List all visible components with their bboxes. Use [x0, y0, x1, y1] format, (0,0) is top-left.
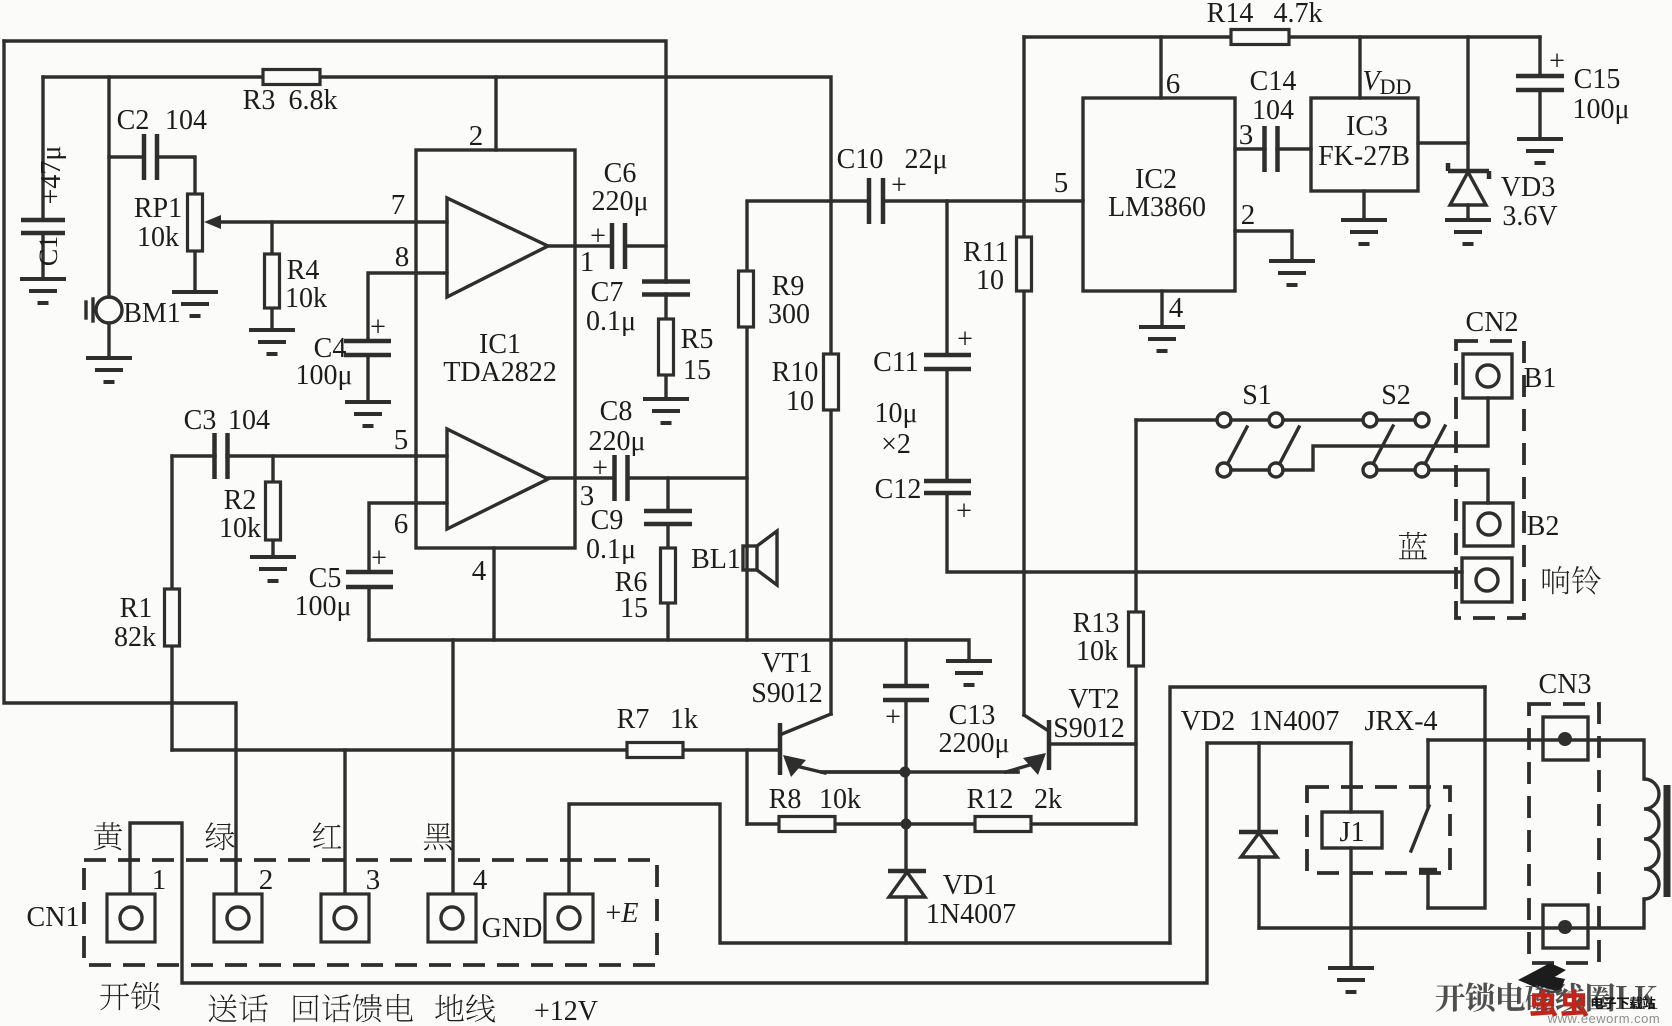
wire R13 to VT2 base node — [1134, 666, 1137, 824]
label R12 value 2k — [1034, 784, 1062, 815]
svg-text:300: 300 — [768, 299, 810, 330]
label BM1 — [123, 298, 181, 329]
wire IC1 pin 4 down to ground rail — [492, 548, 495, 640]
wire S2 lower to B2 — [1429, 470, 1488, 503]
ground under C15 — [1517, 139, 1563, 163]
svg-text:VT2: VT2 — [1068, 684, 1119, 715]
pin 4 label IC2 — [1169, 292, 1184, 324]
capacitor C15 100u electrolytic — [1516, 76, 1564, 90]
label R8 — [769, 784, 802, 815]
wire +E rail — [569, 804, 1170, 943]
svg-text:+: + — [592, 453, 608, 484]
wire S1 lower to B1 line — [1283, 398, 1488, 470]
label C9 value 0.1u — [586, 534, 636, 565]
pin 1 label CN1 — [152, 864, 167, 896]
relay contact lever — [1411, 806, 1437, 870]
op-amp IC1 channel B triangle — [447, 429, 548, 529]
svg-text:+: + — [1549, 46, 1565, 77]
label R13 value 10k — [1076, 636, 1118, 667]
label R14 — [1207, 0, 1254, 29]
wire R10 bottom to ground rail — [829, 410, 832, 640]
svg-text:R1: R1 — [120, 593, 153, 624]
label C15 — [1574, 64, 1621, 95]
wire R8 to R12 junction — [835, 822, 975, 825]
svg-text:+: + — [956, 496, 972, 527]
wire R5 to ground — [664, 375, 667, 399]
wire contact top lead — [1426, 740, 1429, 806]
svg-text:C11: C11 — [873, 347, 919, 378]
svg-text:8: 8 — [395, 241, 410, 273]
terminal CN3 top — [1543, 717, 1588, 760]
terminal CN1 pin 2 — [214, 894, 262, 942]
label black Chinese — [424, 823, 452, 850]
svg-text:R4: R4 — [287, 255, 320, 286]
wire relay contact feed — [1428, 687, 1485, 908]
wire C6 to C7 branch node — [626, 244, 666, 247]
wire unlock rail from CN1 pin1 — [130, 743, 1351, 983]
wire R2 top tap — [271, 456, 274, 482]
label ground-wire Chinese — [435, 994, 495, 1022]
capacitor C12 10u electrolytic — [924, 481, 971, 493]
svg-text:1: 1 — [152, 864, 167, 896]
capacitor C10 22u — [869, 178, 883, 224]
resistor R6 15 — [661, 548, 676, 603]
wire C9 to R6 — [666, 524, 669, 548]
wire IC1 pin 1 output to C6 — [548, 244, 611, 247]
wire C5 bottom to ground rail — [367, 587, 370, 640]
wire R1 branch from C3 node — [170, 456, 173, 589]
svg-text:R14: R14 — [1207, 0, 1254, 29]
diode VD1 1N4007 — [888, 871, 926, 897]
svg-text:JRX-4: JRX-4 — [1364, 706, 1437, 737]
svg-text:C14: C14 — [1250, 66, 1297, 97]
svg-text:FK-27B: FK-27B — [1318, 141, 1410, 172]
svg-text:B2: B2 — [1527, 511, 1560, 542]
svg-text:104: 104 — [1252, 95, 1294, 126]
resistor R12 2k — [975, 817, 1031, 832]
wire R7 to VT1 base — [683, 748, 779, 751]
label R5 — [681, 324, 714, 355]
label R11 — [963, 237, 1009, 268]
label C10 — [837, 144, 884, 175]
pin 5 label IC2 — [1054, 167, 1069, 199]
label R14 value 4.7k — [1274, 0, 1323, 29]
svg-text:4: 4 — [1169, 292, 1184, 324]
wire RP1 bottom to ground — [193, 251, 196, 292]
wire IC3 bottom to ground — [1362, 191, 1365, 219]
wire C12 to ring line — [947, 493, 1462, 572]
ground under R2 — [250, 557, 296, 581]
wire C3 to IC1 pin 5 — [227, 454, 447, 457]
capacitor C13 2200u electrolytic — [883, 686, 929, 700]
label C12 plus — [956, 496, 972, 527]
label B1 — [1524, 363, 1557, 394]
svg-text:J1: J1 — [1340, 817, 1365, 848]
wire CN3 bottom to coil return — [1259, 899, 1644, 928]
svg-text:×2: ×2 — [881, 429, 911, 460]
wire C14 to IC3 — [1277, 147, 1311, 150]
relay JRX-4 dashed outline — [1307, 787, 1450, 873]
capacitor C11 10u electrolytic — [924, 355, 971, 369]
label IC3 part FK-27B — [1318, 141, 1410, 172]
label C6 value 220u — [591, 186, 648, 217]
svg-text:RP1: RP1 — [134, 193, 182, 224]
label VD3 value 3.6V — [1502, 201, 1557, 232]
svg-text:CN1: CN1 — [27, 902, 80, 933]
svg-text:82k: 82k — [114, 622, 156, 653]
wire S2 lower link — [1377, 468, 1415, 471]
terminal B2 of CN2 — [1464, 503, 1513, 546]
svg-text:0.1μ: 0.1μ — [586, 534, 636, 565]
ground under BM1 — [86, 358, 132, 382]
label R10 value 10 — [786, 386, 814, 417]
label IC1 — [479, 329, 521, 360]
wire contact to CN3 top terminal — [1428, 740, 1644, 779]
ground under C1 — [20, 279, 66, 303]
svg-text:R8: R8 — [769, 784, 802, 815]
pin 8 label IC1 — [395, 241, 410, 273]
watermark graduation cap logo — [1518, 963, 1566, 992]
wire VD2 bottom lead — [1257, 857, 1260, 928]
label C8 — [600, 396, 633, 427]
svg-text:+: + — [891, 170, 907, 201]
svg-text:+E: +E — [606, 898, 639, 929]
label S2 — [1381, 380, 1411, 411]
switch S2 — [1363, 413, 1445, 477]
label R10 — [772, 357, 819, 388]
svg-text:R9: R9 — [772, 271, 805, 302]
svg-text:R7: R7 — [617, 704, 650, 735]
label R4 — [287, 255, 320, 286]
svg-text:C1: C1 — [34, 236, 63, 266]
junction R8 R12 C13 VD1 — [901, 819, 912, 830]
svg-text:+: + — [957, 324, 973, 355]
terminal CN1 pin 1 — [107, 894, 155, 942]
wire C1 branch down from rail — [41, 77, 44, 220]
resistor R2 10k — [266, 482, 281, 540]
svg-text:B1: B1 — [1524, 363, 1557, 394]
wire R4 top tap — [270, 222, 273, 254]
label C11 plus — [957, 324, 973, 355]
label green Chinese — [206, 822, 235, 850]
wire R6 bottom to ground rail — [666, 603, 669, 640]
svg-text:C9: C9 — [591, 505, 624, 536]
svg-text:C8: C8 — [600, 396, 633, 427]
label C4 plus — [370, 312, 386, 343]
svg-text:+: + — [370, 312, 386, 343]
potentiometer RP1 10k — [188, 194, 203, 251]
ground IC2 pin2 — [1269, 261, 1315, 285]
svg-text:10μ: 10μ — [874, 398, 917, 429]
wire R3 supply rail y77 to R10 branch — [43, 77, 831, 201]
wire top border from left edge to C7 branch — [4, 41, 666, 282]
connector CN1 dashed outline — [84, 860, 657, 965]
ground under C4 — [345, 402, 391, 426]
label C15 value 100u — [1572, 94, 1629, 125]
label C6 plus — [590, 221, 606, 252]
pin 7 label IC1 — [391, 189, 406, 221]
label C3 — [184, 405, 217, 436]
label R8 value 10k — [819, 784, 861, 815]
wire R12 to VT2 base riser — [1031, 822, 1136, 825]
label VD2 part — [1181, 706, 1340, 737]
svg-text:R2: R2 — [224, 485, 257, 516]
label R11 value 10 — [976, 265, 1004, 296]
label C7 — [591, 277, 624, 308]
wire VD3 bottom to ground — [1466, 205, 1469, 219]
label unlock Chinese — [100, 982, 159, 1011]
label C13 plus — [885, 702, 901, 733]
label C14 value 104 — [1252, 95, 1294, 126]
unlock solenoid coil LK — [1644, 779, 1659, 899]
wire IC2 pin 3 to C14 — [1235, 147, 1265, 150]
svg-text:10k: 10k — [1076, 636, 1118, 667]
label R7 value 1k — [670, 704, 698, 735]
wire R1 bottom to feed line — [170, 646, 173, 750]
resistor R13 10k — [1129, 612, 1144, 666]
junction emitter rail / C13 — [900, 767, 911, 778]
speaker BL1 — [743, 531, 777, 585]
wire VD3 riser from supply — [1466, 37, 1469, 171]
svg-text:C7: C7 — [591, 277, 624, 308]
svg-text:IC3: IC3 — [1346, 111, 1388, 142]
label R2 value 10k — [219, 513, 261, 544]
svg-text:R11: R11 — [963, 237, 1009, 268]
capacitor C7 0.1u — [642, 282, 690, 295]
microphone BM1 — [86, 297, 122, 323]
wire C2 input wire — [109, 155, 144, 158]
svg-text:220μ: 220μ — [591, 186, 648, 217]
wire J1 bottom to ground — [1349, 848, 1352, 967]
label VD1 part 1N4007 — [926, 899, 1016, 930]
label C3 value 104 — [228, 405, 270, 436]
label C1 +47u value — [36, 146, 67, 205]
svg-text:100μ: 100μ — [294, 591, 351, 622]
svg-text:+: + — [371, 543, 387, 574]
wire feed line y750 from R1 to R7 — [172, 748, 627, 751]
label talk Chinese — [209, 994, 268, 1022]
label C5 plus — [371, 543, 387, 574]
wire BM1 to ground — [107, 323, 110, 358]
label C4 value 100u — [295, 360, 352, 391]
svg-text:10k: 10k — [137, 222, 179, 253]
svg-text:TDA2822: TDA2822 — [443, 357, 557, 388]
svg-text:IC1: IC1 — [479, 329, 521, 360]
wire supply line y37 — [1024, 35, 1540, 38]
wire emitter rail VT1-VT2 — [822, 770, 1018, 773]
label IC1 part TDA2822 — [443, 357, 557, 388]
wire CN1 pin3 riser — [343, 750, 346, 894]
svg-text:3: 3 — [366, 864, 381, 896]
wire R9 riser to C10 line — [747, 201, 869, 271]
wire C8 to speaker branch — [628, 476, 747, 479]
wire VD2 top tap — [1257, 743, 1260, 830]
label VT2 part S9012 — [1053, 713, 1125, 744]
amplifier IC2 LM3860 box — [1083, 98, 1235, 291]
svg-text:R12: R12 — [967, 784, 1014, 815]
svg-text:C6: C6 — [604, 158, 637, 189]
svg-text:IC2: IC2 — [1135, 164, 1177, 195]
wire C11 to C12 — [945, 369, 948, 481]
label red Chinese — [313, 822, 341, 848]
svg-text:2k: 2k — [1034, 784, 1062, 815]
svg-text:BM1: BM1 — [123, 298, 181, 329]
wire IC2 pin 6 riser — [1159, 37, 1162, 98]
svg-text:VD2 1N4007: VD2 1N4007 — [1181, 706, 1340, 737]
svg-text:2200μ: 2200μ — [938, 728, 1009, 759]
wire C7 to R5 — [664, 294, 667, 319]
svg-text:2: 2 — [469, 120, 484, 152]
terminal ring of CN2 — [1462, 558, 1512, 602]
terminal CN3 bottom — [1543, 905, 1588, 948]
svg-text:BL1: BL1 — [691, 544, 741, 575]
wire S1 lower link — [1231, 468, 1269, 471]
label RP1 — [134, 193, 182, 224]
pin 2 label IC1 — [469, 120, 484, 152]
label C5 — [309, 563, 342, 594]
solenoid core bar — [1664, 785, 1671, 897]
label IC3 — [1346, 111, 1388, 142]
wire BM1 branch down from rail — [107, 77, 110, 297]
svg-text:10: 10 — [976, 265, 1004, 296]
ground under RP1 — [172, 292, 218, 316]
label +E — [606, 898, 639, 929]
label C12 — [875, 474, 922, 505]
wire R10 line to VT1 collector — [829, 640, 832, 714]
svg-text:22μ: 22μ — [904, 144, 947, 175]
label CN3 — [1539, 669, 1592, 700]
wire left border down to node under R1 area — [4, 41, 236, 894]
label C5 value 100u — [294, 591, 351, 622]
wire C2 to RP1 top — [157, 157, 195, 194]
capacitor C8 220u — [615, 455, 628, 501]
label R3 — [243, 85, 276, 116]
capacitor C6 220u — [612, 223, 625, 269]
svg-text:+12V: +12V — [534, 996, 598, 1026]
svg-text:4: 4 — [473, 864, 488, 896]
capacitor C2 — [144, 134, 157, 180]
wire S1 to R13 riser — [1134, 420, 1137, 612]
label BL1 — [691, 544, 741, 575]
svg-text:10k: 10k — [285, 283, 327, 314]
label C10 value 22u — [904, 144, 947, 175]
capacitor C1 47u electrolytic — [21, 220, 65, 233]
label RP1 value 10k — [137, 222, 179, 253]
wire IC1 pin 8 to C4 — [368, 273, 447, 341]
wire C13 bottom through junctions to VD1 — [904, 700, 907, 871]
capacitor C14 104 — [1265, 126, 1278, 172]
svg-text:C15: C15 — [1574, 64, 1621, 95]
svg-text:100μ: 100μ — [1572, 94, 1629, 125]
capacitor C4 100u electrolytic — [344, 341, 391, 355]
wire R4 bottom to ground — [270, 308, 273, 329]
svg-text:www.eeworm.com: www.eeworm.com — [1547, 1011, 1660, 1026]
wire CN1 pin4 riser — [451, 640, 454, 894]
connector CN3 dashed outline — [1529, 704, 1599, 963]
svg-text:CN3: CN3 — [1539, 669, 1592, 700]
watermark site name — [1592, 997, 1656, 1010]
label C14 — [1250, 66, 1297, 97]
label C8 value 220u — [588, 426, 645, 457]
label C13 — [949, 700, 996, 731]
wire C13 top from ground rail — [904, 640, 907, 686]
pin 3 label CN1 — [366, 864, 381, 896]
wire S2 link — [1377, 418, 1415, 421]
terminal CN3 top contact dot — [1558, 732, 1572, 746]
wire ground rail y640 — [369, 640, 969, 660]
label R1 value 82k — [114, 622, 156, 653]
svg-text:+47μ: +47μ — [36, 146, 67, 205]
resistor R9 300 — [739, 271, 754, 327]
resistor R7 1k — [627, 743, 683, 758]
wire IC3 VDD riser — [1358, 37, 1361, 98]
terminal B1 of CN2 — [1463, 354, 1512, 398]
svg-text:10k: 10k — [819, 784, 861, 815]
ground at rail right end — [946, 661, 992, 685]
wire S1-S2 link — [1283, 418, 1363, 421]
label C10 plus — [891, 170, 907, 201]
capacitor C9 0.1u — [644, 511, 692, 524]
svg-text:15: 15 — [683, 355, 711, 386]
zener diode VD3 3.6V — [1448, 163, 1489, 205]
wire C1 bottom to ground — [41, 233, 44, 279]
svg-text:4.7k: 4.7k — [1274, 0, 1323, 29]
svg-text:1N4007: 1N4007 — [926, 899, 1016, 930]
label C1 ref — [34, 236, 63, 266]
pin 1 label IC1 — [580, 246, 595, 278]
svg-text:220μ: 220μ — [588, 426, 645, 457]
ground IC2 pin4 — [1139, 327, 1185, 351]
svg-text:R3: R3 — [243, 85, 276, 116]
wire RP1 wiper to IC1 pin 7 — [219, 220, 447, 223]
svg-text:6: 6 — [394, 508, 409, 540]
svg-text:4: 4 — [472, 555, 487, 587]
label VT1 part S9012 — [751, 678, 823, 709]
svg-text:C12: C12 — [875, 474, 922, 505]
svg-text:10k: 10k — [219, 513, 261, 544]
label R13 — [1073, 608, 1120, 639]
svg-text:C3: C3 — [184, 405, 217, 436]
wire IC1 pin 3 output to C8 — [548, 476, 614, 479]
wire IC1 pin 2 up to supply rail — [494, 77, 497, 150]
wire speaker branch vertical — [745, 327, 748, 640]
wire R10 branch vertical — [829, 201, 832, 354]
pin 4 label IC1 — [472, 555, 487, 587]
wire IC2 pin 2 to ground — [1235, 231, 1292, 260]
svg-text:+: + — [590, 221, 606, 252]
label C7 value 0.1u — [586, 306, 636, 337]
resistor R3 6.8k — [263, 70, 320, 85]
label C11 value x2 — [881, 429, 911, 460]
wire IC1 pin 6 to C5 — [369, 503, 447, 572]
svg-text:R10: R10 — [772, 357, 819, 388]
label C11 value 10u — [874, 398, 917, 429]
svg-text:S9012: S9012 — [1053, 713, 1125, 744]
svg-text:6.8k: 6.8k — [289, 85, 338, 116]
wire R11 line top — [1022, 37, 1025, 237]
label VT1 — [761, 648, 812, 679]
label C8 plus — [592, 453, 608, 484]
svg-text:R13: R13 — [1073, 608, 1120, 639]
transistor VT1 S9012 — [780, 714, 904, 777]
wire R2 bottom to ground — [271, 540, 274, 557]
label R9 — [772, 271, 805, 302]
terminal CN3 bottom contact dot — [1558, 920, 1572, 934]
connector CN2 dashed outline — [1456, 341, 1524, 618]
capacitor C5 100u electrolytic — [346, 572, 393, 587]
wire C11 tap from pin5 line — [945, 201, 948, 355]
diode VD2 1N4007 — [1239, 832, 1278, 857]
